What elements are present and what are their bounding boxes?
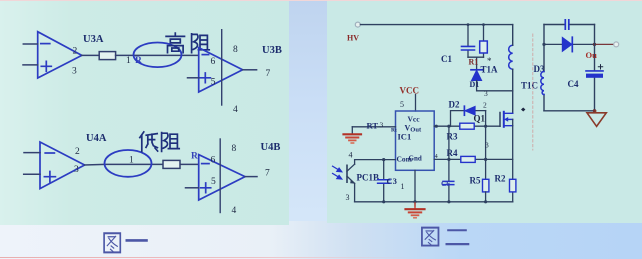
wire C6 branch [448,126,450,202]
transformer core dashed line [532,34,534,150]
resistor R4 [461,156,475,162]
svg-text:5: 5 [211,177,216,187]
svg-text:R1: R1 [469,58,479,67]
op-amp U4B [199,155,245,200]
wire R5 bottom [485,192,487,202]
svg-text:1: 1 [129,156,134,166]
wire IC Vout pin to gate [434,125,500,127]
svg-text:C4: C4 [568,79,579,89]
wire U4A +input stub [24,173,40,175]
left figure panel [0,1,289,225]
bottom caption strip [0,221,642,259]
svg-text:3: 3 [484,89,488,98]
svg-text:D1: D1 [470,80,480,89]
capacitor C5 (snubber across D4) [565,20,569,29]
ground (RT, red) [344,127,362,143]
MOSFET Q1 [500,112,513,127]
svg-text:PC1B: PC1B [357,173,380,183]
right figure panel [327,1,642,223]
wire gate net vertical [485,111,487,180]
wire secondary top [544,24,595,26]
output terminal [614,42,619,47]
svg-text:R3: R3 [447,132,458,142]
op-amp U4A [40,142,85,189]
node dot R1 top [482,23,485,26]
wire U3A -input stub [23,43,37,45]
node ellipse (high impedance) [134,43,182,68]
node dot R4 cross [484,158,487,161]
caption 图一 [104,233,146,252]
text 高阻 [166,33,209,53]
svg-text:8: 8 [233,45,238,55]
diode D1 [471,70,482,81]
wire U4B power line [219,139,221,213]
winding T1A primary [509,45,513,69]
resistor R (upper) [99,52,115,60]
svg-text:C1: C1 [441,54,452,64]
wire D2 loop [451,111,486,127]
wire to U3B through node [116,54,199,56]
capacitor C3 [378,160,390,202]
wire U3A +input stub [23,64,38,66]
capacitor C1 [462,25,475,58]
wire snubber bottom [468,57,484,69]
wire U3A output [82,54,99,56]
wire diode row [544,43,595,45]
svg-text:C6: C6 [441,179,450,188]
node dot C3 top [382,158,385,161]
HV terminal [355,22,360,27]
node dots on bus [382,200,385,203]
svg-text:HV: HV [347,34,359,43]
svg-text:Rt: Rt [391,128,397,134]
svg-text:6: 6 [211,57,216,67]
wire secondary bottom [544,110,595,112]
wire ground bus [355,201,513,203]
resistor R3 [460,123,474,129]
svg-text:U4B: U4B [261,142,281,153]
svg-text:5: 5 [211,78,216,88]
resistor R5 [483,179,489,192]
wire secondary right vertical [594,25,596,111]
svg-text:2: 2 [75,147,80,157]
wire source net [512,119,514,201]
svg-text:T1A: T1A [481,65,499,75]
text 低阻 [140,132,179,152]
svg-text:7: 7 [265,169,270,179]
wire U3B output [243,69,257,71]
wire U4B output [245,176,257,178]
wire R4 row [434,158,513,160]
wire IC pin1 to ground [414,170,416,206]
wire HV top rail [361,24,513,26]
svg-text:3: 3 [346,193,350,202]
wire U4A output [85,163,199,166]
diode D2 [464,106,475,115]
svg-text:Gnd: Gnd [409,155,422,163]
svg-text:2: 2 [483,101,487,110]
wire primary bottom to drain [512,69,514,113]
svg-text:4: 4 [232,206,237,216]
svg-text:D2: D2 [449,100,460,110]
caption 图二 [422,228,468,246]
svg-text:T1C: T1C [521,81,538,91]
wire U3B power line [221,30,223,105]
IC U1 box [396,111,435,170]
svg-text:Vcc: Vcc [408,115,421,124]
capacitor C4 electrolytic [586,65,603,78]
node dot diode row left [542,43,545,46]
svg-text:4: 4 [233,105,238,115]
resistor R (lower) [163,160,180,168]
wire output stub [595,43,614,45]
svg-text:R5: R5 [470,176,481,186]
svg-text:3: 3 [72,67,77,77]
wire primary top [512,25,514,46]
svg-text:U3A: U3A [83,34,104,45]
svg-text:3: 3 [485,141,489,150]
svg-text:U4A: U4A [86,133,107,144]
svg-text:7: 7 [266,69,271,79]
ground (IC, red) [406,203,425,218]
svg-text:R: R [191,152,198,162]
capacitor C6 [443,181,454,184]
svg-text:3: 3 [380,121,384,130]
node dot output [593,43,596,46]
svg-text:Q1: Q1 [474,114,486,124]
winding T1C secondary [541,72,544,95]
svg-text:4: 4 [349,151,353,160]
svg-text:5: 5 [400,100,404,109]
node dot Vout [435,125,438,128]
node ellipse (low impedance) [105,150,152,177]
ground (output) [587,111,606,127]
secondary loop left wire [543,25,545,111]
node dot C1 top [467,23,470,26]
svg-text:3: 3 [74,165,79,175]
resistor R1 [480,25,488,58]
wire PC1B emitter down [354,183,356,201]
svg-text:8: 8 [232,144,237,154]
light arrows into PC1B [333,166,342,179]
op-amp U3A [38,32,82,78]
svg-text:C3: C3 [387,176,397,186]
svg-text:2: 2 [73,47,78,57]
wire RT pin [352,126,395,128]
wire U4A -input stub [24,152,40,154]
svg-text:Ou: Ou [586,50,598,60]
polarity diamond at drain [521,108,525,112]
svg-text:R4: R4 [447,148,458,158]
bottom pink edge line [0,257,420,258]
diode D4 output rectifier [562,37,572,51]
node dot gate/R3 [484,125,487,128]
svg-text:U3B: U3B [262,45,282,56]
wire VCC to IC [415,95,417,112]
svg-text:D3: D3 [534,64,545,74]
node dot secondary bottom [593,109,596,112]
top pink edge line [0,0,642,1]
op-amp U3B [199,48,243,92]
wire D1 to switch node [477,81,513,91]
svg-text:1: 1 [401,182,405,191]
optocoupler PC1B [347,164,355,183]
svg-text:6: 6 [211,156,216,166]
node dot C6 top [447,125,450,128]
resistor R2 [510,179,516,192]
svg-text:IC1: IC1 [398,132,412,142]
svg-text:1: 1 [126,56,131,66]
svg-text:RT: RT [367,121,379,131]
svg-text:R2: R2 [495,174,506,184]
wire PC1B collector to IC Com [355,160,396,165]
wire U4B +input stub [186,187,199,189]
wire U3B +input stub [188,77,199,79]
